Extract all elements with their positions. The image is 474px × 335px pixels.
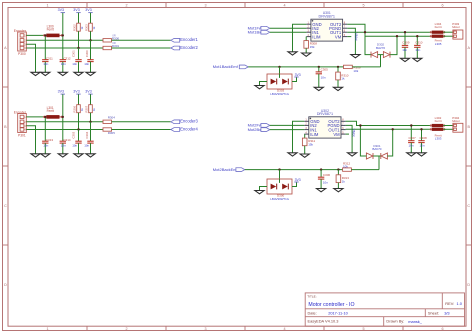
svg-text:3V3: 3V3 (73, 8, 79, 12)
svg-text:10n: 10n (415, 48, 420, 52)
svg-text:L305: L305 (435, 42, 442, 46)
connector P304 Motor (453, 123, 463, 132)
svg-text:DRV8871: DRV8871 (317, 112, 333, 116)
op-amp/driver IC U301 DRV8871 (306, 19, 347, 41)
svg-text:Ferrit: Ferrit (47, 109, 55, 113)
svg-text:REV:: REV: (445, 301, 454, 306)
capacitor C306 filter (320, 170, 322, 178)
resistor R312 series (343, 168, 352, 171)
svg-text:LBAV99WT1G: LBAV99WT1G (270, 92, 289, 96)
diode D301 BAV70 (366, 153, 372, 159)
svg-text:6: 6 (441, 4, 443, 8)
svg-text:ILIM: ILIM (312, 34, 321, 39)
ground for C313 (44, 152, 46, 154)
svg-text:15k: 15k (310, 45, 315, 49)
junction on pin4 row (77, 47, 79, 49)
svg-text:C310: C310 (415, 41, 423, 45)
junction clamp right (392, 128, 394, 130)
svg-text:VMot: VMot (354, 33, 358, 41)
wire clamp box left pin to ground (260, 187, 268, 190)
inductor L304 ferrite (432, 31, 444, 34)
wire clamp box left pin to ground (260, 82, 268, 85)
svg-text:mansk_: mansk_ (408, 319, 422, 324)
junction clamp right (396, 35, 398, 37)
svg-text:5: 5 (362, 327, 364, 331)
wire to net flag 1 (112, 121, 171, 123)
junction cap1 (44, 34, 46, 36)
wire pin1 to ferrite (26, 34, 43, 36)
capacitor C310 (416, 36, 418, 45)
wire pin2 row (26, 39, 103, 41)
svg-text:1.0: 1.0 (457, 301, 463, 306)
capacitor C301 (78, 48, 80, 60)
ground for C311 (44, 71, 46, 73)
wire pin1 to ferrite (26, 116, 43, 118)
wire PGND to ground (347, 28, 355, 53)
svg-text:2017-11-10: 2017-11-10 (328, 310, 348, 315)
ground for C314 (62, 152, 64, 154)
svg-text:C: C (4, 204, 7, 208)
svg-text:TITLE:: TITLE: (307, 295, 316, 299)
svg-text:Sheet:: Sheet: (428, 310, 439, 315)
svg-text:DRV8871: DRV8871 (319, 15, 335, 19)
inductor L302 ferrite (432, 124, 444, 127)
ground for D303 (259, 84, 261, 86)
svg-text:4: 4 (283, 4, 285, 8)
svg-text:3V3: 3V3 (58, 8, 64, 12)
svg-text:LBAV99WT1G: LBAV99WT1G (270, 197, 289, 201)
svg-text:10k: 10k (353, 69, 358, 73)
svg-text:Motor: Motor (452, 25, 460, 29)
connector P301 (Encoder header) (18, 114, 27, 133)
svg-text:0R: 0R (112, 41, 115, 45)
wire to net flag 1 (112, 39, 171, 41)
svg-text:3V3: 3V3 (295, 178, 301, 182)
power flag 3V3 at D303 (294, 76, 298, 78)
resistor R308 ILIM (305, 37, 307, 41)
ground for C307 (410, 151, 412, 153)
ground for U302 GND pin (292, 151, 294, 153)
ground for C306 (320, 187, 322, 189)
resistor R311 ILIM (304, 134, 306, 138)
resistor R301 series (103, 46, 112, 49)
wire backemf line right (351, 169, 379, 171)
svg-text:Motor controller - IO: Motor controller - IO (308, 302, 354, 308)
svg-text:Encoder3: Encoder3 (180, 119, 198, 124)
ground for R311 (304, 153, 306, 155)
ground for U302 PGND (351, 151, 353, 153)
resistor R306 pull-up (77, 105, 81, 113)
wire clamp box right pin to 3V3 (292, 77, 297, 82)
connector P300 (Encoder header) (18, 32, 27, 51)
junction C307 (410, 124, 412, 126)
ground for R310 (337, 86, 339, 88)
ground for C310 (416, 57, 418, 59)
svg-text:EasyEDA V4.10.3: EasyEDA V4.10.3 (308, 319, 339, 324)
wire ferrite1 to motor connector (443, 125, 453, 127)
junction C308 (420, 128, 422, 130)
junction C305 (318, 66, 320, 68)
resistor R309 series (344, 65, 353, 68)
svg-text:C308: C308 (420, 136, 428, 140)
wire OUT straight rail (346, 128, 432, 130)
wire pin4 row (26, 129, 103, 131)
capacitor C311 (44, 35, 46, 59)
ground for C300 (90, 71, 92, 73)
wire clamp box right pin to 3V3 (292, 182, 297, 187)
svg-text:R302: R302 (73, 24, 77, 31)
power flag 3V3 at D300 (294, 181, 298, 183)
svg-text:R305: R305 (108, 131, 116, 135)
net label VMot on VM pin (346, 133, 349, 135)
svg-text:VM: VM (335, 34, 342, 39)
capacitor C314 (62, 117, 64, 141)
diode D300 dual clamp (267, 179, 292, 194)
svg-text:3V3: 3V3 (85, 8, 91, 12)
svg-text:1: 1 (46, 4, 48, 8)
junction cap1 (44, 116, 46, 118)
wire backemf line left (248, 66, 343, 68)
svg-text:3: 3 (204, 327, 206, 331)
junction on pin2 row (89, 39, 91, 41)
ground for C301 (78, 71, 80, 73)
junction cap2 / 3V3 node (62, 34, 64, 36)
junction cap2 / 3V3 node (62, 116, 64, 118)
svg-text:10n: 10n (409, 143, 414, 147)
capacitor C308 (421, 129, 423, 140)
wire clamp right to rail (390, 36, 397, 54)
svg-text:Encoder2: Encoder2 (180, 45, 198, 50)
wire IN1 input (270, 31, 307, 33)
svg-text:C304: C304 (85, 131, 89, 138)
svg-text:L303: L303 (435, 137, 442, 141)
svg-text:10n: 10n (61, 144, 66, 148)
capacitor C313 (44, 117, 46, 141)
wire GND pin to ground (293, 24, 307, 51)
svg-text:10k: 10k (343, 164, 348, 168)
wire backemf line left (245, 169, 343, 171)
wire GND pin to ground (293, 121, 305, 152)
svg-text:3V3: 3V3 (58, 90, 64, 94)
svg-text:Mot2BackEmf: Mot2BackEmf (213, 167, 239, 172)
svg-text:C300: C300 (85, 50, 89, 57)
svg-text:Encoder1: Encoder1 (180, 37, 198, 42)
wire clamp right to rail (387, 129, 392, 156)
wire pin2 row (26, 121, 103, 123)
svg-text:10n: 10n (84, 62, 89, 66)
svg-text:C: C (467, 204, 470, 208)
svg-text:3V3: 3V3 (73, 90, 79, 94)
ground for D300 (259, 189, 261, 191)
wire pin3 to ground (26, 44, 35, 71)
wire pin3 to ground (26, 126, 35, 153)
wire IN2 input (270, 124, 305, 126)
svg-text:Mot1BackEmf: Mot1BackEmf (213, 64, 239, 69)
capacitor C309 (404, 32, 406, 45)
wire OUT jog rail (347, 24, 431, 36)
svg-text:R303: R303 (85, 24, 89, 31)
svg-text:Ferrit: Ferrit (435, 25, 442, 29)
svg-text:0R: 0R (112, 34, 115, 38)
junction R310 (337, 66, 339, 68)
svg-text:3/3: 3/3 (444, 310, 449, 315)
title block frame (305, 293, 464, 326)
svg-text:4: 4 (283, 327, 285, 331)
wire ferrite1 to motor connector (443, 31, 453, 33)
ground for C304 (90, 152, 92, 154)
svg-text:3V3: 3V3 (295, 73, 301, 77)
wire OUT straight rail (347, 31, 431, 33)
ground for pin3 (35, 152, 37, 154)
diode D302 BAV70 (371, 52, 378, 58)
wire ferrite2 to motor connector (443, 35, 453, 37)
svg-text:D: D (4, 283, 7, 287)
resistor R313 shunt (337, 170, 339, 175)
resistor R310 shunt (337, 67, 339, 72)
svg-text:10n: 10n (323, 181, 328, 185)
svg-text:Encoder: Encoder (14, 110, 27, 114)
ground for C305 (318, 86, 320, 88)
wire PGND to ground (346, 125, 353, 151)
net label Encoder2 (171, 46, 180, 50)
svg-text:6: 6 (441, 327, 443, 331)
svg-text:10n: 10n (61, 62, 66, 66)
wire clamp left to rail (360, 126, 366, 157)
inductor L305 ferrite (432, 35, 444, 38)
junction D300 tap (278, 168, 280, 170)
inductor L301 ferrite bead (46, 115, 59, 119)
svg-text:3: 3 (204, 4, 206, 8)
svg-text:D: D (467, 283, 470, 287)
junction D303 tap (278, 66, 280, 68)
wire clamp centre to backemf line (378, 156, 380, 170)
svg-text:ILIM: ILIM (310, 132, 319, 137)
op-amp/driver IC U302 DRV8871 (304, 117, 345, 138)
svg-text:3V3: 3V3 (85, 90, 91, 94)
resistor R302 pull-up (77, 23, 81, 31)
svg-text:BAV70: BAV70 (376, 46, 385, 50)
svg-text:C306: C306 (323, 173, 331, 177)
junction clamp left (364, 31, 366, 33)
junction C309 (404, 31, 406, 33)
svg-text:VM: VM (333, 132, 340, 137)
junction C310 (416, 35, 418, 37)
capacitor C312 (62, 35, 64, 59)
capacitor C307 (410, 126, 412, 141)
svg-text:10n: 10n (84, 144, 89, 148)
wire to net flag 2 (112, 47, 171, 49)
svg-text:BAV70: BAV70 (372, 147, 381, 151)
svg-text:15k: 15k (308, 142, 313, 146)
svg-text:5: 5 (362, 4, 364, 8)
wire clamp centre to backemf line (380, 55, 382, 67)
ground for R308 (305, 52, 307, 54)
svg-text:Motor: Motor (452, 119, 460, 123)
ground for C312 (62, 71, 64, 73)
diode D303 dual clamp (267, 74, 292, 89)
svg-text:10n: 10n (43, 62, 48, 66)
svg-text:10n: 10n (72, 62, 77, 66)
wire backemf line right (352, 66, 380, 68)
capacitor C300 (90, 40, 92, 59)
wire D300 centre pin (279, 170, 281, 179)
svg-text:10n: 10n (420, 143, 425, 147)
svg-text:1: 1 (46, 327, 48, 331)
wire D303 centre pin (279, 67, 281, 74)
svg-text:P300: P300 (18, 52, 26, 56)
wire clamp left to rail (365, 32, 371, 54)
ground for U301 PGND (354, 53, 356, 55)
wire IN2 input (270, 27, 307, 29)
svg-text:C312: C312 (63, 56, 71, 60)
junction clamp left (359, 124, 361, 126)
svg-text:1k: 1k (342, 179, 346, 183)
svg-text:VMot: VMot (352, 129, 356, 137)
svg-text:R306: R306 (73, 105, 77, 112)
junction C306 (320, 168, 322, 170)
resistor R307 pull-up (89, 105, 93, 113)
svg-text:Ferrit: Ferrit (435, 119, 442, 123)
ground for U301 GND pin (292, 50, 294, 52)
svg-text:C314: C314 (63, 138, 71, 142)
junction on pin2 row (89, 121, 91, 123)
svg-text:1k: 1k (341, 77, 345, 81)
svg-text:Encoder4: Encoder4 (180, 126, 198, 131)
capacitor C305 filter (318, 67, 320, 72)
connector P303 Motor (453, 30, 463, 39)
capacitor C304 (90, 122, 92, 141)
svg-text:C311: C311 (46, 56, 53, 60)
net label Encoder3 (171, 120, 180, 124)
svg-text:10n: 10n (402, 48, 407, 52)
ground for C303 (78, 152, 80, 154)
ground for C308 (421, 151, 423, 153)
svg-text:R307: R307 (85, 105, 89, 112)
wire to net flag 2 (112, 129, 171, 131)
resistor R305 series (103, 128, 112, 131)
inductor L300 ferrite bead (46, 34, 59, 38)
svg-text:C309: C309 (402, 41, 410, 45)
svg-text:C307: C307 (409, 136, 417, 140)
inductor L303 ferrite (432, 128, 444, 131)
svg-text:C313: C313 (46, 138, 54, 142)
junction on pin4 row (77, 128, 79, 130)
svg-text:10n: 10n (72, 144, 77, 148)
svg-text:2: 2 (125, 4, 127, 8)
resistor R304 series (103, 120, 112, 123)
capacitor C303 (78, 130, 80, 142)
net label Encoder1 (171, 38, 180, 42)
wire IN1 input (270, 129, 305, 131)
svg-text:10n: 10n (321, 75, 326, 79)
net label VMot on VM pin (347, 36, 351, 38)
svg-text:2: 2 (125, 327, 127, 331)
svg-text:Date:: Date: (308, 310, 317, 315)
ground for R313 (337, 187, 339, 189)
svg-text:C303: C303 (72, 131, 76, 138)
svg-text:Encoder: Encoder (14, 29, 27, 33)
svg-text:R304: R304 (108, 116, 116, 120)
wire pin4 row (26, 47, 103, 49)
resistor R300 series (103, 39, 112, 42)
resistor R303 pull-up (89, 23, 93, 31)
svg-text:C305: C305 (321, 68, 329, 72)
ground for pin3 (35, 71, 37, 73)
svg-text:P301: P301 (18, 134, 26, 138)
svg-text:Ferrit: Ferrit (47, 28, 55, 32)
svg-text:Drawn By:: Drawn By: (386, 319, 404, 324)
net label Encoder4 (171, 128, 180, 132)
junction R313 (337, 168, 339, 170)
wire ferrite2 to motor connector (443, 128, 453, 130)
wire OUT jog rail (346, 121, 432, 125)
svg-text:10n: 10n (43, 144, 48, 148)
ground for C309 (404, 57, 406, 59)
svg-text:C301: C301 (72, 50, 76, 57)
